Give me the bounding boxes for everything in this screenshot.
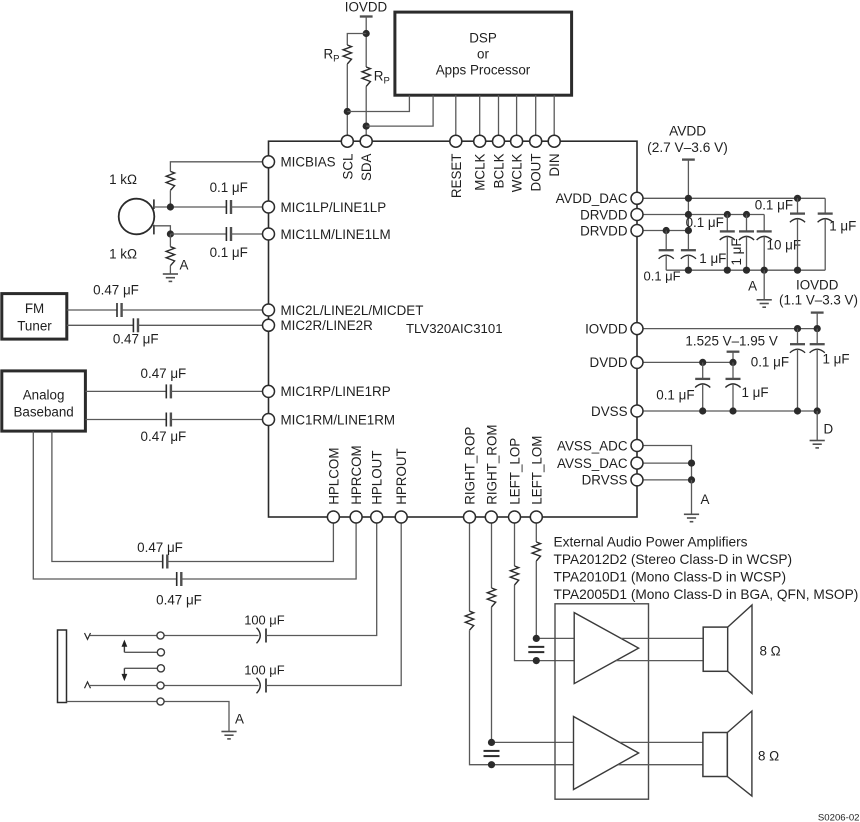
wire AVSS_ADC row [643,446,692,480]
wire amp2 output bottom to speaker2 [618,764,703,766]
switch arm up arrow [123,646,125,652]
resistor R3 (RIGHT_ROP) [465,611,473,630]
wire DRVDD row lower [643,230,688,232]
pin WCLK [511,135,523,147]
wire DRVSS row [643,479,692,481]
svg-text:WCLK: WCLK [510,153,525,192]
svg-text:S0206-02: S0206-02 [818,813,860,822]
pin SDA [360,135,372,147]
wire LEFT_LOP to amp1 negative input [515,585,575,661]
wire cap to MIC1RP pin [171,390,263,392]
pin AVSS_ADC [631,440,643,452]
pin DRVDD [631,225,643,237]
wire IOVDD stem [816,313,818,329]
svg-text:IOVDD: IOVDD [585,321,628,336]
svg-text:1 μF: 1 μF [742,385,769,400]
svg-text:A: A [748,279,757,294]
wire RIGHT_ROM column to resistor [491,523,493,588]
wire rail to ground A [763,270,765,300]
capacitor C13 0.1 uF [659,249,674,251]
pin HPRCOM [350,511,362,523]
wire AVDD_DAC row [643,197,825,199]
svg-text:A: A [235,712,244,727]
speaker LS1 8 Ohm [703,627,728,671]
capacitor C12 (amp2 input) [484,750,500,752]
wire amp1 output bottom to speaker1 [616,660,703,662]
svg-text:0.1 μF: 0.1 μF [656,388,694,403]
svg-text:DSP: DSP [469,30,497,45]
svg-text:LEFT_LOP: LEFT_LOP [508,438,523,505]
wire resistor to ground [169,266,171,274]
wire IOVDD 1uF cap down [816,329,818,345]
wire DSP to WCLK [516,95,518,135]
resistor R6 (LEFT_LOM) [532,542,540,561]
svg-text:MIC1LM/LINE1LM: MIC1LM/LINE1LM [281,227,391,242]
pin MICBIAS [263,156,275,168]
node dot row3 0.1uF branch [663,227,670,234]
wire AB return left column to HPRCOM [33,431,176,579]
node dot row2 cap1 [724,211,731,218]
pin MCLK [474,135,486,147]
svg-text:BCLK: BCLK [492,153,507,188]
wire AVSS_DAC row [643,462,692,464]
wire row2 corner down to 10uF cap [763,215,765,232]
wire switch contact 3 [124,667,157,669]
svg-text:DVSS: DVSS [591,404,628,419]
svg-text:FM: FM [25,301,44,316]
svg-text:1 μF: 1 μF [729,238,744,265]
microphone MK1 (electret) [119,199,155,235]
pin MIC1RM/LINE1RM [263,414,275,426]
capacitor C9 100 uF (HPLOUT) [257,628,261,644]
svg-text:SCL: SCL [340,154,355,180]
capacitor C1 0.1 uF (MIC1LP) [225,200,227,214]
svg-text:RESET: RESET [449,154,464,199]
wire DSP to BCLK [498,95,500,135]
capacitor C11 (amp1 input) [528,646,544,648]
svg-text:TPA2012D2 (Stereo Class-D in W: TPA2012D2 (Stereo Class-D in WCSP) [554,552,793,567]
capacitor C10 100 uF (HPROUT) [257,678,261,694]
wire mic bottom to cap [170,233,226,235]
block Analog Baseband [2,371,86,431]
ground D (digital) [810,440,825,442]
capacitor C17 10 uF [757,230,772,232]
pin MIC1LM/LINE1LM [263,228,275,240]
svg-text:0.47 μF: 0.47 μF [137,540,183,555]
svg-text:TLV320AIC3101: TLV320AIC3101 [406,321,503,336]
svg-text:MIC2R/LINE2R: MIC2R/LINE2R [281,318,374,333]
capacitor C22 0.1 uF [695,378,710,380]
wire DVDD stem [732,352,734,363]
wire middle cluster 0.1uF cap down [726,215,728,232]
pin DIN [548,135,560,147]
pin MIC2R/LINE2R [263,319,275,331]
capacitor C14 1 uF (on AVDD stem) [681,249,696,251]
wire AB return right column to HPLCOM [52,431,163,561]
wire jack tip line to cap [90,635,259,637]
wire cap to MIC1LP pin [231,206,263,208]
svg-text:1 μF: 1 μF [699,251,726,266]
op-amp A1 (left channel) [574,613,638,684]
node dot AVSS_DAC [688,460,695,467]
wire middle cluster 1uF cap down [746,215,748,232]
svg-text:RIGHT_ROP: RIGHT_ROP [463,427,478,505]
wire FM bottom to cap [67,324,134,326]
wire C13 to rail [665,255,667,270]
wire cap to MIC2L pin [122,309,263,311]
wire cap to HPLCOM pin column [167,523,333,562]
svg-text:AVDD: AVDD [669,123,706,138]
wire RIGHT_ROM to amp2 positive input [491,607,493,742]
svg-text:0.47 μF: 0.47 μF [93,283,139,298]
node dot DRVSS [688,476,695,483]
node dot IOVDD stem [814,325,821,332]
wire RIGHT_ROP column to resistor [469,523,471,611]
wire SCL column to pin [346,64,348,136]
node dot row2 cap2 [743,211,750,218]
pin RESET [450,135,462,147]
svg-text:DIN: DIN [547,154,562,177]
svg-text:8 Ω: 8 Ω [758,749,779,764]
svg-text:(2.7 V–3.6 V): (2.7 V–3.6 V) [647,140,728,155]
capacitor C2 0.1 uF (MIC1LM) [225,227,227,241]
node junction dot IOVDD/RP branch [363,30,370,37]
wire DSP to MCLK [479,95,481,135]
node dot row2/stem [685,211,692,218]
switch arm down arrow [123,668,125,674]
wire branch to SCL pull-up [347,34,366,46]
node dot mic top [167,203,174,210]
capacitor C23 1 uF [726,378,741,380]
svg-text:Tuner: Tuner [17,319,52,334]
jack tip contact mark [85,633,91,639]
svg-text:Baseband: Baseband [13,405,73,420]
power IOVDD supply bar right [811,311,824,313]
pin DVDD [631,356,643,368]
wire switch contact 2 [124,651,157,653]
svg-text:External Audio Power Amplifier: External Audio Power Amplifiers [554,535,748,550]
svg-text:MIC1RP/LINE1RP: MIC1RP/LINE1RP [281,384,391,399]
svg-text:0.47 μF: 0.47 μF [113,332,159,347]
wire C14 to rail [687,255,689,270]
wire AVDD stem through rows [687,160,689,251]
pin DVSS [631,405,643,417]
wire AVDD ground rail [666,269,825,271]
svg-text:AVDD_DAC: AVDD_DAC [556,191,628,206]
wire DVSS row [643,410,817,412]
wire cap to HPRCOM pin column [181,523,356,579]
resistor R5 (LEFT_LOP) [510,566,518,585]
wire DSP to SDA [366,95,433,126]
svg-text:or: or [477,46,489,61]
pin HPROUT [395,511,407,523]
wire SDA column to pin [365,86,367,135]
svg-text:MIC1RM/LINE1RM: MIC1RM/LINE1RM [281,412,396,427]
wire RIGHT_ROP to amp2 negative input [470,630,575,765]
svg-text:AVSS_DAC: AVSS_DAC [557,456,628,471]
wire 0.1uF branch down [665,231,667,251]
svg-text:SDA: SDA [359,153,374,181]
wire row1 corner down to 1uF cap [824,198,826,213]
capacitor C15 0.1 uF [720,230,735,232]
op-amp A2 (right channel) [574,717,639,790]
wire jack ring line to cap [90,685,259,687]
block FM Tuner [2,294,67,340]
pin RIGHT_ROM [485,511,497,523]
node dot amp2 neg [488,761,495,768]
pin DRVDD [631,209,643,221]
resistor RP (SDA pull-up) [362,67,370,86]
capacitor C21 1 uF [810,343,825,345]
wire DVDD 1uF down [732,362,734,379]
resistor R1 1 kOhm (bias top) [166,171,174,190]
node dot IOVDD 0.1uF [794,325,801,332]
capacitor C6 0.47 uF (MIC1RM) [165,413,167,427]
svg-text:LEFT_LOM: LEFT_LOM [529,436,544,505]
wire mic bottom lead [154,226,171,234]
node dot amp1 pos [533,635,540,642]
svg-text:100 μF: 100 μF [244,663,285,678]
svg-text:MCLK: MCLK [473,153,488,190]
pin MIC2L/LINE2L/MICDET [263,304,275,316]
ground A (analog supply) [757,299,772,301]
svg-text:AVSS_ADC: AVSS_ADC [557,438,628,453]
wire IOVDD 0.1uF cap down [797,329,799,345]
capacitor C3 0.47 uF (MIC2L) [116,303,118,317]
power DVDD supply bar [727,351,740,353]
pin BCLK [493,135,505,147]
svg-text:10 μF: 10 μF [767,238,802,253]
wire IOVDD row [643,328,817,330]
pin LEFT_LOP [509,511,521,523]
svg-text:HPROUT: HPROUT [394,448,409,505]
wire amp1 output top to speaker1 [621,637,703,639]
pin HPLOUT [371,511,383,523]
svg-text:(1.1 V–3.3 V): (1.1 V–3.3 V) [779,292,858,307]
wire cap to MIC1RM pin [171,419,263,421]
svg-text:100 μF: 100 μF [244,613,285,628]
wire DSP to RESET [455,95,457,135]
block U2 DSP or Apps Processor [395,12,572,95]
power IOVDD supply bar [360,15,373,17]
switch contact 4 [157,682,164,689]
svg-text:DOUT: DOUT [529,154,544,192]
svg-text:HPLOUT: HPLOUT [370,450,385,504]
svg-text:A: A [180,258,189,273]
wire cap to MIC2R pin [138,324,263,326]
svg-text:0.47 μF: 0.47 μF [156,593,202,608]
wire LEFT_LOP column to resistor [514,523,516,566]
wire right cluster 0.1uF down [797,198,799,213]
svg-text:D: D [824,422,834,437]
pin IOVDD [631,323,643,335]
svg-text:0.1 μF: 0.1 μF [210,245,248,260]
ground A (jack sleeve) [221,731,236,733]
node dot DVDD 0.1uF [699,359,706,366]
power AVDD supply bar [682,158,695,160]
svg-text:0.47 μF: 0.47 μF [141,429,187,444]
wire mic top lead to MIC1LP [154,206,227,208]
ground A (mic bias) [163,273,178,275]
svg-text:IOVDD: IOVDD [796,277,839,292]
svg-text:1 μF: 1 μF [829,219,856,234]
pin HPLCOM [327,511,339,523]
svg-text:0.1 μF: 0.1 μF [751,355,789,370]
switch contact 1 [157,632,164,639]
speaker LS2 8 Ohm [703,733,728,777]
wire SDA column from IOVDD bar [365,17,367,68]
svg-text:Analog: Analog [23,388,65,403]
pin SCL [341,135,353,147]
wire cap to HPROUT pin column [266,523,401,686]
svg-text:TPA2005D1 (Mono Class-D in BGA: TPA2005D1 (Mono Class-D in BGA, QFN, MSO… [554,587,859,602]
wire AB bottom to cap [85,419,166,421]
node dot mic bottom [167,230,174,237]
wire amp2 output top to speaker2 [620,741,703,743]
switch contact 2 [157,649,164,656]
wire DVDD row [643,361,733,363]
svg-text:HPRCOM: HPRCOM [349,445,364,505]
block U3 external amplifier box [555,604,649,799]
svg-text:1 μF: 1 μF [823,352,850,367]
wire cap to MIC1LM pin [231,233,263,235]
svg-text:MIC2L/LINE2L/MICDET: MIC2L/LINE2L/MICDET [281,303,424,318]
svg-text:DVDD: DVDD [590,355,628,370]
svg-text:RIGHT_ROM: RIGHT_ROM [484,424,499,504]
capacitor C19 1 uF [818,212,833,214]
wire amp1 positive input line [536,637,574,639]
node dot row3/stem [685,227,692,234]
node dot SCL/DSP junction [344,108,351,115]
connector J1 headphone jack body [58,630,67,703]
wire DVSS to ground D [816,411,818,441]
pin AVDD_DAC [631,192,643,204]
wire mic bottom to 1k ground resistor [169,234,171,247]
pin AVSS_DAC [631,457,643,469]
capacitor C8 0.47 uF (HPRCOM) [176,572,178,586]
pin DOUT [530,135,542,147]
node dot row1/stem [685,195,692,202]
node dot amp1 neg [533,657,540,664]
capacitor C16 1 uF (vertical label) [739,230,754,232]
svg-text:Apps Processor: Apps Processor [436,62,531,77]
jack ring contact mark [85,682,91,688]
node dot DVDD stem [729,359,736,366]
wire MICBIAS to 1k bias resistor [170,162,262,172]
node dot amp2 pos [488,739,495,746]
node dot row1 right cluster 0.1uF [794,195,801,202]
wire LEFT_LOM column to resistor [535,523,537,542]
svg-text:MICBIAS: MICBIAS [281,155,336,170]
svg-text:0.1 μF: 0.1 μF [755,198,793,213]
svg-text:A: A [701,492,710,507]
ground A (AVSS) [684,513,699,515]
svg-text:1 kΩ: 1 kΩ [109,172,137,187]
wire DRVDD row upper [643,214,764,216]
wire jack sleeve to ground [67,702,230,732]
svg-text:0.1 μF: 0.1 μF [686,215,724,230]
svg-text:MIC1LP/LINE1LP: MIC1LP/LINE1LP [281,200,387,215]
wire DSP to SCL [347,95,409,111]
wire amp2 positive input line [492,741,575,743]
node dots DVSS row [699,407,706,414]
pin DRVSS [631,474,643,486]
capacitor C18 0.1 uF [790,212,805,214]
node dot SDA/DSP junction [363,123,370,130]
resistor R2 1 kOhm (bias bottom) [166,247,174,266]
capacitor C4 0.47 uF (MIC2R) [132,318,134,332]
resistor R4 (RIGHT_ROM) [487,588,495,607]
svg-text:1.525 V–1.95 V: 1.525 V–1.95 V [685,334,777,349]
wire DVDD 0.1uF down [702,362,704,379]
wire cap to HPLOUT pin column [266,523,377,636]
wire AVSS to ground A [691,480,693,514]
node dots on rail [685,267,692,274]
switch contact 5 [157,698,164,705]
wire LEFT_LOM to amp1 positive input [535,561,537,638]
svg-text:TPA2010D1 (Mono Class-D in WCS: TPA2010D1 (Mono Class-D in WCSP) [554,570,787,585]
pin MIC1RP/LINE1RP [263,385,275,397]
IC U1 TLV320AIC3101 body [269,141,638,517]
resistor RP (SCL pull-up) [343,45,351,64]
pin MIC1LP/LINE1LP [263,201,275,213]
svg-text:1 kΩ: 1 kΩ [109,247,137,262]
capacitor C20 0.1 uF [790,343,805,345]
svg-text:8 Ω: 8 Ω [760,644,781,659]
capacitor C7 0.47 uF (HPLCOM) [162,555,164,569]
svg-text:DRVDD: DRVDD [580,207,628,222]
svg-text:0.47 μF: 0.47 μF [141,366,187,381]
wire DSP to DIN [553,95,555,135]
switch contact 3 [157,665,164,672]
svg-text:DRVDD: DRVDD [580,223,628,238]
svg-text:IOVDD: IOVDD [345,0,388,15]
wire DSP to DOUT [535,95,537,135]
svg-text:DRVSS: DRVSS [582,473,628,488]
wire FM top to cap [67,309,117,311]
pin LEFT_LOM [530,511,542,523]
capacitor C5 0.47 uF (MIC1RP) [165,384,167,398]
wire AB top to cap [85,390,166,392]
pin RIGHT_ROP [464,511,476,523]
svg-text:HPLCOM: HPLCOM [326,448,341,505]
wire resistor to mic junction [169,190,171,207]
svg-text:0.1 μF: 0.1 μF [210,180,248,195]
